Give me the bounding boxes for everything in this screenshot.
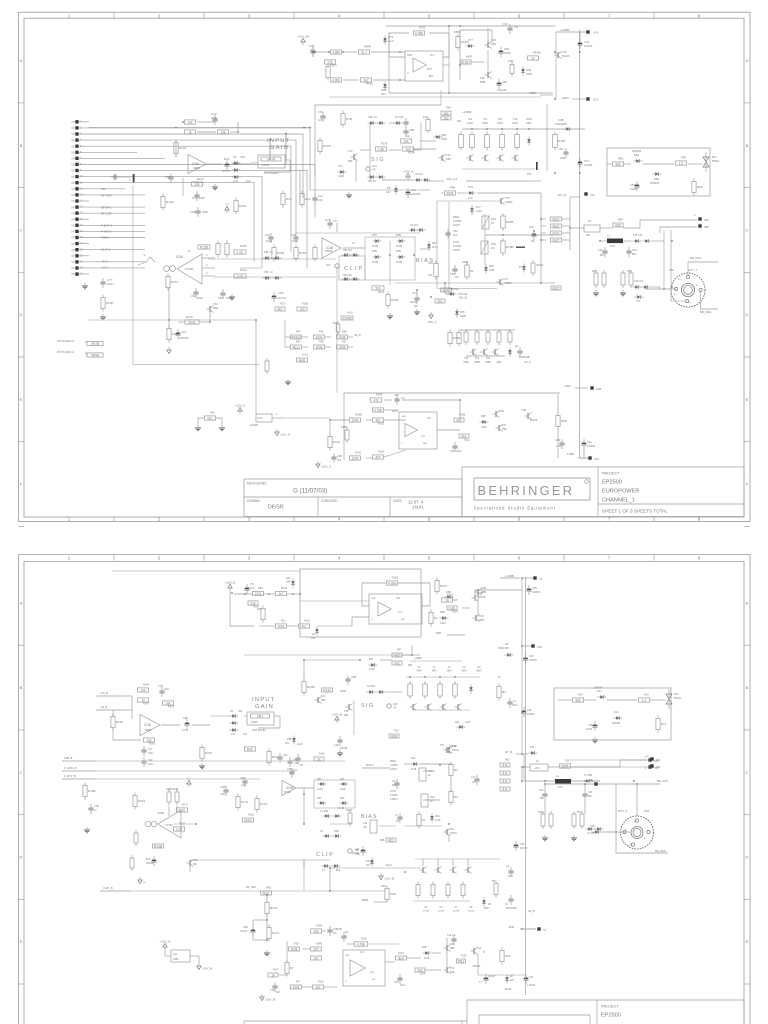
svg-text:4E1u: 4E1u bbox=[292, 345, 300, 349]
junction dots p1 bbox=[312, 51, 314, 53]
svg-text:F BYP 0: F BYP 0 bbox=[101, 224, 112, 228]
wire bias legs bbox=[437, 200, 497, 202]
svg-text:+11BM: +11BM bbox=[560, 28, 570, 32]
svg-text:S2366: S2366 bbox=[423, 910, 430, 912]
svg-text:R175: R175 bbox=[168, 706, 175, 709]
svg-text:C43: C43 bbox=[587, 441, 592, 444]
svg-text:D: D bbox=[746, 855, 749, 860]
svg-text:R4D: R4D bbox=[381, 885, 386, 888]
svg-text:4580: 4580 bbox=[193, 166, 200, 170]
resistor R153 bbox=[133, 793, 145, 810]
diode D14b bbox=[529, 751, 538, 754]
svg-text:GND: GND bbox=[371, 598, 376, 600]
svg-text:EP2500: EP2500 bbox=[602, 480, 622, 486]
resistor R28 bbox=[261, 606, 265, 623]
resistor R128 bbox=[386, 292, 399, 309]
resistor R15B p2 bbox=[83, 783, 96, 800]
svg-text:#14B: #14B bbox=[441, 138, 447, 141]
svg-text:VR5: VR5 bbox=[491, 243, 496, 246]
svg-text:T104: T104 bbox=[464, 439, 470, 442]
svg-text:47k: 47k bbox=[101, 187, 106, 191]
svg-text:B: B bbox=[746, 143, 749, 148]
svg-text:3204B: 3204B bbox=[342, 316, 351, 320]
svg-text:X63: X63 bbox=[704, 219, 709, 222]
svg-text:B2B: B2B bbox=[380, 840, 385, 842]
svg-text:100n: 100n bbox=[197, 296, 204, 300]
resistor R37 bbox=[337, 345, 348, 349]
wire p2 input chain bbox=[210, 715, 231, 717]
svg-text:22/25: 22/25 bbox=[630, 187, 637, 191]
svg-text:C9N: C9N bbox=[558, 147, 563, 151]
svg-text:S2366: S2366 bbox=[438, 910, 445, 912]
svg-text:2N5064: 2N5064 bbox=[632, 149, 642, 153]
svg-text:XP: XP bbox=[71, 121, 75, 124]
resistor R47b bbox=[392, 661, 402, 665]
svg-text:10A5: 10A5 bbox=[482, 122, 488, 125]
svg-text:27n: 27n bbox=[333, 219, 338, 223]
svg-text:A: A bbox=[20, 58, 23, 63]
transistor T43 bbox=[351, 154, 358, 161]
cap C6P bbox=[397, 974, 402, 984]
wire opamp out bbox=[207, 163, 222, 165]
array resistors bbox=[470, 132, 475, 151]
svg-text:X61: X61 bbox=[240, 155, 245, 159]
connector CC4 bbox=[256, 414, 272, 422]
svg-text:-15V_A: -15V_A bbox=[321, 464, 331, 468]
svg-text:100k: 100k bbox=[352, 456, 359, 460]
cap C1PP bbox=[223, 786, 228, 796]
resistor R18Bv bbox=[345, 427, 349, 443]
svg-text:R34: R34 bbox=[296, 341, 301, 344]
resistor R182 bbox=[373, 418, 384, 422]
resistor R127 bbox=[435, 578, 448, 595]
resistor R21k bbox=[325, 60, 336, 64]
svg-text:R142: R142 bbox=[197, 177, 204, 181]
diode D1B1 bbox=[445, 595, 454, 598]
svg-text:1n5: 1n5 bbox=[299, 764, 304, 767]
wire right limit bbox=[541, 218, 546, 220]
svg-text:4k7: 4k7 bbox=[301, 624, 306, 628]
wire top bus bbox=[459, 30, 461, 80]
diode D52 bbox=[340, 782, 349, 785]
svg-text:C6B: C6B bbox=[183, 717, 188, 720]
wire p2 left long bbox=[61, 761, 63, 779]
sig block box bbox=[315, 105, 441, 217]
opamp IC3A bbox=[140, 715, 160, 736]
connector X53a bbox=[650, 757, 653, 760]
svg-text:68n: 68n bbox=[540, 797, 545, 800]
connector X50b bbox=[648, 765, 651, 768]
resistor R6right4 bbox=[551, 238, 562, 242]
svg-text:BEHRINGER: BEHRINGER bbox=[478, 483, 575, 498]
resistor R157 bbox=[166, 274, 179, 291]
wire vert drop x337 bbox=[336, 223, 338, 232]
svg-text:0k2: 0k2 bbox=[456, 418, 461, 422]
ground ic3a bbox=[199, 763, 205, 769]
resistor R181 bbox=[350, 456, 361, 460]
svg-text:100E: 100E bbox=[338, 335, 345, 339]
svg-text:R7: R7 bbox=[290, 966, 294, 970]
svg-text:M8B: M8B bbox=[480, 80, 486, 84]
connector X13 bbox=[586, 97, 589, 100]
resistor A200 bbox=[510, 62, 514, 77]
svg-text:8n2: 8n2 bbox=[392, 784, 397, 787]
resistor R19x bbox=[376, 147, 387, 151]
svg-text:C96: C96 bbox=[450, 450, 455, 453]
wire clip down bbox=[336, 266, 338, 393]
capacitor C71 bbox=[110, 174, 120, 179]
resistor R56 bbox=[426, 117, 430, 134]
svg-text:3n3: 3n3 bbox=[337, 459, 342, 462]
wire IC8 out bbox=[443, 64, 449, 66]
svg-text:0k22: 0k22 bbox=[553, 224, 560, 228]
svg-text:C37: C37 bbox=[584, 159, 589, 163]
svg-text:27n: 27n bbox=[472, 781, 477, 784]
svg-text:C7B: C7B bbox=[94, 805, 99, 808]
sheet outer border bbox=[19, 555, 751, 1024]
BEHRINGER logo box bbox=[474, 478, 590, 500]
svg-text:S2B0: S2B0 bbox=[474, 362, 480, 364]
resistor R6right3 bbox=[551, 231, 562, 235]
wire clip to bias bbox=[352, 242, 355, 244]
svg-text:R19B: R19B bbox=[307, 685, 315, 689]
svg-text:+IN 0: +IN 0 bbox=[101, 266, 109, 270]
svg-text:T1B: T1B bbox=[499, 410, 504, 413]
resistor R6P2 bbox=[613, 223, 623, 227]
wire 13700 pins bbox=[202, 257, 215, 259]
connector diode X6p2a bbox=[230, 714, 239, 717]
svg-text:16V: 16V bbox=[381, 92, 386, 96]
svg-text:-30B: -30B bbox=[435, 631, 441, 635]
cap C48 bbox=[403, 127, 408, 137]
svg-text:R20B1: R20B1 bbox=[533, 51, 541, 55]
svg-text:F2B 0: F2B 0 bbox=[101, 236, 109, 240]
svg-text:414B: 414B bbox=[338, 175, 344, 178]
svg-text:CURR.: CURR. bbox=[390, 763, 398, 767]
svg-text:CC4: CC4 bbox=[257, 417, 263, 420]
svg-text:X4 D61: X4 D61 bbox=[367, 685, 376, 688]
svg-text:500E: 500E bbox=[446, 191, 453, 195]
wire p2 mid vertical bbox=[303, 794, 305, 824]
svg-text:C33: C33 bbox=[283, 754, 288, 757]
cap C6p2 bbox=[394, 779, 399, 789]
svg-text:100n: 100n bbox=[292, 239, 299, 243]
cap C7B top bbox=[341, 932, 346, 942]
svg-text:T2B: T2B bbox=[481, 587, 486, 590]
diode H51a bbox=[342, 253, 351, 256]
svg-text:R1PP: R1PP bbox=[323, 144, 331, 148]
svg-text:R1a5: R1a5 bbox=[361, 938, 367, 941]
resistor R183 bbox=[373, 455, 384, 459]
connector XP pin column bbox=[71, 120, 82, 124]
resistor VR2 bbox=[421, 794, 428, 807]
svg-text:A: A bbox=[20, 600, 23, 605]
cap C31z bbox=[582, 790, 587, 800]
svg-text:R14B: R14B bbox=[316, 925, 322, 928]
svg-text:1uF: 1uF bbox=[231, 733, 236, 736]
array transistors bbox=[467, 155, 474, 162]
cap C4Bp2 bbox=[289, 768, 294, 778]
svg-text:YE: YE bbox=[372, 168, 376, 172]
resistor D1B1b bbox=[447, 606, 457, 610]
svg-text:4.7Bk: 4.7Bk bbox=[415, 31, 424, 35]
svg-text:X6B: X6B bbox=[704, 226, 709, 229]
svg-text:4148: 4148 bbox=[481, 426, 487, 429]
svg-text:-11BM: -11BM bbox=[566, 452, 575, 456]
opamp block box p2 bbox=[343, 950, 385, 986]
svg-text:R52: R52 bbox=[505, 759, 510, 762]
svg-text:100k: 100k bbox=[293, 985, 300, 989]
diode D6Bp2 bbox=[440, 616, 449, 619]
triac block box bbox=[607, 148, 710, 196]
svg-text:R14P: R14P bbox=[106, 301, 114, 305]
svg-text:P11: P11 bbox=[396, 597, 401, 600]
resistor R6Bv bbox=[602, 270, 606, 288]
svg-text:10k: 10k bbox=[187, 120, 193, 124]
svg-text:R+61: R+61 bbox=[302, 354, 308, 357]
ground c14 bbox=[414, 309, 420, 315]
svg-text:R22: R22 bbox=[388, 838, 394, 842]
ground R128 bbox=[387, 313, 393, 319]
svg-text:T19: T19 bbox=[513, 118, 518, 121]
resistor R161b bbox=[297, 358, 308, 362]
resistor R5z bbox=[494, 881, 498, 898]
transistor T36 bbox=[493, 411, 500, 418]
svg-text:V-: V- bbox=[407, 73, 409, 75]
svg-text:T3B: T3B bbox=[193, 859, 198, 862]
svg-text:100n: 100n bbox=[164, 688, 170, 691]
transistor row2 devices bbox=[470, 349, 477, 356]
svg-text:X61 X4: X61 X4 bbox=[368, 115, 377, 119]
svg-text:0k27: 0k27 bbox=[553, 238, 560, 242]
svg-text:BF CLF: BF CLF bbox=[101, 212, 112, 216]
diode X4d bbox=[323, 814, 332, 817]
rheostat VR5 bbox=[481, 241, 488, 254]
cap C4B bbox=[331, 453, 336, 463]
svg-text:X1 X6B: X1 X6B bbox=[587, 833, 595, 835]
svg-text:-11BB: -11BB bbox=[361, 898, 368, 902]
power +15V_A6 bbox=[297, 34, 310, 45]
svg-text:XP: XP bbox=[71, 151, 75, 154]
svg-text:14141: 14141 bbox=[412, 505, 424, 510]
svg-text:R44: R44 bbox=[296, 331, 301, 334]
svg-text:C7a 47n: C7a 47n bbox=[447, 935, 456, 937]
svg-text:R127: R127 bbox=[440, 584, 448, 588]
transistor T15p2 bbox=[446, 747, 453, 754]
cap C1z bbox=[483, 974, 488, 984]
wire 13700 out to clip bbox=[240, 267, 262, 269]
diode X51s bbox=[368, 175, 377, 178]
svg-text:100k: 100k bbox=[278, 624, 285, 628]
svg-text:B: B bbox=[746, 685, 749, 690]
resistor R101 bbox=[328, 434, 341, 451]
svg-text:X12: X12 bbox=[590, 193, 595, 197]
resistor R95 bbox=[692, 179, 703, 196]
svg-text:C9P: C9P bbox=[502, 80, 507, 84]
svg-text:C49: C49 bbox=[529, 226, 534, 229]
svg-text:BTRst: BTRst bbox=[712, 159, 719, 163]
transistor T34 bbox=[207, 306, 214, 313]
svg-text:100n: 100n bbox=[508, 876, 514, 878]
svg-text:C36: C36 bbox=[520, 843, 525, 846]
svg-text:T24: T24 bbox=[486, 357, 491, 360]
diode X15 bbox=[633, 239, 642, 242]
svg-text:F_GND_B: F_GND_B bbox=[64, 766, 77, 770]
resistor R22p2 bbox=[386, 838, 396, 842]
resistor R170 bbox=[236, 794, 249, 811]
svg-text:A807: A807 bbox=[484, 907, 490, 910]
ground sig bbox=[346, 192, 352, 198]
svg-text:T20: T20 bbox=[498, 118, 503, 121]
wire bias nets bbox=[441, 192, 444, 194]
resistor R5B bbox=[500, 771, 510, 775]
diode X17 bbox=[635, 295, 644, 298]
wire triac bbox=[624, 163, 631, 165]
svg-text:C24: C24 bbox=[539, 789, 544, 792]
svg-text:CLIP: CLIP bbox=[316, 852, 334, 858]
label -15V_B ic bbox=[197, 963, 212, 970]
svg-text:1.8k: 1.8k bbox=[378, 147, 384, 151]
svg-text:R160: R160 bbox=[277, 251, 285, 255]
cap C33 bbox=[277, 753, 282, 763]
resistor R27 bbox=[656, 716, 667, 733]
svg-text:4148: 4148 bbox=[424, 958, 430, 960]
resistor R131 bbox=[322, 688, 333, 692]
wire ic1 inputs bbox=[300, 600, 369, 602]
cap C4z bbox=[508, 895, 513, 905]
resistor R14Bp2 bbox=[153, 844, 164, 848]
svg-text:ET_B: ET_B bbox=[505, 750, 512, 754]
svg-text:10n: 10n bbox=[406, 135, 411, 138]
svg-text:C31: C31 bbox=[588, 791, 593, 794]
transistor T17 bbox=[497, 279, 504, 286]
resistor R19y bbox=[403, 147, 414, 151]
svg-text:ICNB: ICNB bbox=[286, 786, 294, 790]
opamp IC6A bbox=[188, 155, 206, 174]
resistor R63v bbox=[594, 270, 598, 288]
resistor R1P7 bbox=[138, 698, 149, 702]
svg-text:POT2GND A: POT2GND A bbox=[57, 339, 74, 343]
svg-text:100n: 100n bbox=[199, 196, 206, 200]
diode X4s bbox=[377, 121, 386, 124]
svg-text:C73: C73 bbox=[192, 196, 198, 200]
svg-text:C45: C45 bbox=[598, 249, 603, 252]
resistor R4p2 bbox=[449, 789, 458, 806]
diode D77a bbox=[466, 44, 475, 47]
svg-text:LIMIT: LIMIT bbox=[453, 223, 460, 227]
svg-text:P165: P165 bbox=[240, 244, 247, 248]
wire long bus c bbox=[269, 140, 271, 155]
resistor R1H bbox=[373, 408, 384, 412]
svg-text:#14B: #14B bbox=[460, 315, 466, 318]
wire sig to array bbox=[420, 140, 436, 142]
svg-text:BIAS: BIAS bbox=[361, 814, 378, 820]
svg-text:-IN 0: -IN 0 bbox=[101, 260, 108, 264]
svg-text:100V/16: 100V/16 bbox=[277, 297, 287, 300]
svg-text:0k22: 0k22 bbox=[553, 286, 560, 290]
svg-text:E7A: E7A bbox=[423, 116, 428, 119]
svg-text:100n: 100n bbox=[560, 156, 566, 160]
wire pot gnd bbox=[85, 341, 87, 343]
resistor R7B bbox=[341, 111, 352, 128]
resistor R122 bbox=[299, 624, 310, 628]
svg-text:D6B: D6B bbox=[440, 611, 445, 614]
wire ic7 fb bbox=[384, 399, 392, 401]
wire top block left bbox=[328, 52, 330, 97]
diode X22 bbox=[633, 285, 642, 288]
svg-text:PO5: PO5 bbox=[390, 892, 396, 896]
wire bus p2 j bbox=[525, 577, 527, 995]
diode H51b bbox=[342, 277, 351, 280]
svg-text:+11BB: +11BB bbox=[505, 574, 514, 578]
svg-text:R161: R161 bbox=[239, 204, 247, 208]
svg-text:LDx: LDx bbox=[326, 263, 331, 267]
svg-text:C1B: C1B bbox=[588, 724, 593, 727]
diode D2A bbox=[634, 159, 643, 162]
diode D51p bbox=[318, 801, 327, 804]
wire 13700 p2 bbox=[96, 760, 345, 762]
wire bus p2 h bbox=[412, 654, 420, 656]
wire p2 drop x412 bbox=[411, 645, 413, 655]
diode D7Bx bbox=[448, 292, 457, 295]
svg-text:4148: 4148 bbox=[317, 788, 323, 791]
svg-text:BAL: BAL bbox=[429, 75, 434, 78]
resistor R185 bbox=[371, 398, 382, 402]
svg-text:X13: X13 bbox=[593, 98, 599, 102]
svg-text:R123: R123 bbox=[281, 586, 288, 590]
svg-text:#14B: #14B bbox=[526, 72, 532, 76]
svg-text:B/3T: B/3T bbox=[421, 436, 426, 438]
wire row p2 bbox=[406, 676, 480, 678]
wire staircase d bbox=[335, 243, 337, 259]
svg-text:R6L: R6L bbox=[457, 120, 462, 123]
svg-text:-15V_B: -15V_B bbox=[265, 997, 275, 1001]
svg-text:S2366: S2366 bbox=[453, 910, 460, 912]
svg-text:R5B: R5B bbox=[450, 972, 455, 974]
svg-text:50A06: 50A06 bbox=[562, 54, 570, 58]
bot row resistors p2 bbox=[416, 882, 420, 899]
relay K2 bbox=[584, 225, 600, 232]
resistor R1B6p2 bbox=[167, 789, 171, 805]
svg-text:R36: R36 bbox=[210, 411, 215, 415]
svg-text:T15: T15 bbox=[505, 196, 510, 200]
svg-text:1943: 1943 bbox=[461, 671, 467, 673]
svg-text:XP: XP bbox=[71, 249, 75, 252]
svg-text:R122: R122 bbox=[304, 620, 311, 623]
svg-text:47k: 47k bbox=[502, 771, 508, 775]
svg-text:XP: XP bbox=[71, 273, 75, 276]
diode D53 bbox=[340, 801, 349, 804]
svg-text:R1: R1 bbox=[434, 616, 438, 620]
drawn cell bbox=[317, 497, 319, 517]
wire bus p2 d bbox=[521, 767, 523, 781]
svg-text:41 4B: 41 4B bbox=[338, 808, 344, 810]
svg-text:R166: R166 bbox=[116, 720, 124, 724]
LED LD6 p2 bbox=[387, 704, 391, 708]
svg-text:X16: X16 bbox=[594, 457, 599, 461]
cap C45 bbox=[602, 247, 607, 257]
svg-text:100n: 100n bbox=[211, 116, 218, 120]
diode X4t bbox=[377, 175, 386, 178]
svg-text:X51 X4: X51 X4 bbox=[368, 180, 377, 183]
resistor R132 bbox=[313, 985, 324, 989]
capacitor C46 bbox=[310, 47, 315, 57]
svg-text:R171: R171 bbox=[272, 931, 280, 935]
wire BR_NEG path bbox=[701, 292, 718, 309]
svg-text:D42: D42 bbox=[455, 721, 460, 724]
svg-text:0k2: 0k2 bbox=[414, 305, 419, 308]
svg-text:BF EHL: BF EHL bbox=[101, 206, 112, 210]
